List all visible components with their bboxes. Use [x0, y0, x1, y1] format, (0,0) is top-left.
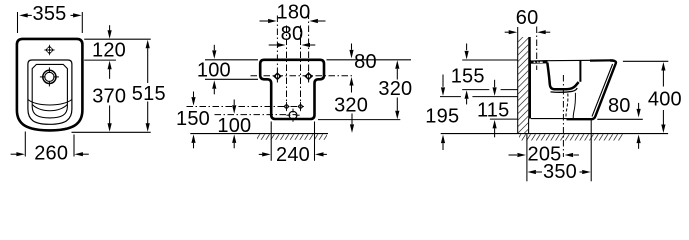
svg-text:155: 155: [451, 65, 485, 87]
svg-text:180: 180: [277, 1, 311, 23]
svg-text:370: 370: [92, 85, 126, 107]
svg-text:355: 355: [33, 3, 67, 25]
svg-text:80: 80: [281, 23, 304, 45]
svg-text:515: 515: [132, 83, 166, 105]
svg-text:100: 100: [217, 115, 251, 137]
svg-text:320: 320: [334, 95, 368, 117]
svg-text:80: 80: [608, 95, 631, 117]
svg-text:115: 115: [477, 99, 510, 121]
svg-text:100: 100: [197, 60, 231, 82]
svg-text:60: 60: [516, 7, 539, 29]
svg-text:400: 400: [648, 88, 682, 110]
svg-text:350: 350: [543, 161, 577, 183]
svg-text:195: 195: [425, 106, 459, 128]
svg-text:240: 240: [276, 144, 310, 166]
svg-text:260: 260: [34, 142, 68, 164]
svg-text:150: 150: [176, 108, 210, 130]
svg-text:80: 80: [354, 51, 377, 73]
svg-text:120: 120: [92, 39, 126, 61]
svg-text:320: 320: [378, 78, 412, 100]
